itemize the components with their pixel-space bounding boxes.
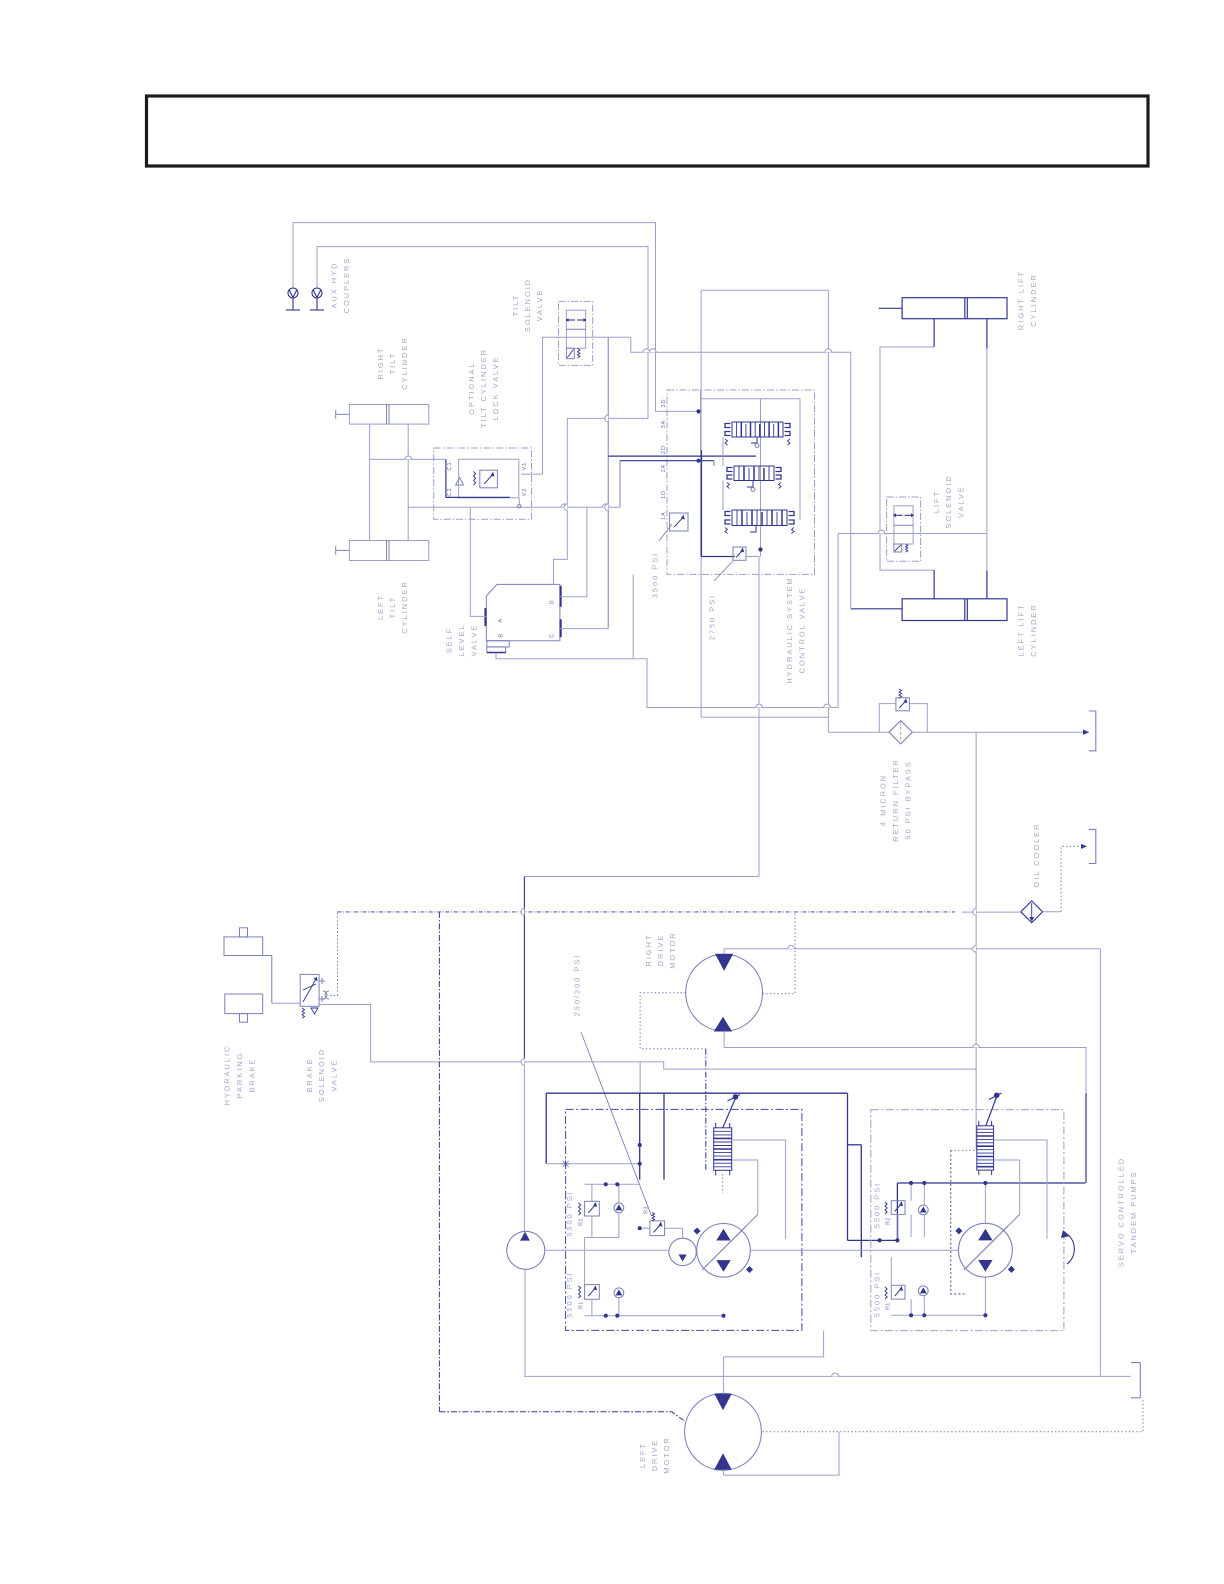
wire lift rod feed bbox=[850, 352, 852, 609]
left check upper bbox=[614, 1203, 624, 1213]
port relief 2750 psi bbox=[733, 547, 746, 560]
svg-text:TILT: TILT bbox=[388, 596, 397, 619]
wire control valve tank drop bbox=[632, 574, 634, 658]
wire self level to case line bbox=[647, 707, 838, 709]
wire tilt line to lock valve C2 bbox=[408, 506, 620, 508]
svg-text:CYLINDER: CYLINDER bbox=[400, 336, 409, 389]
lift solenoid bbox=[894, 544, 902, 552]
main relief 3500 psi bbox=[670, 513, 688, 531]
wire case drain to oil cooler bbox=[962, 911, 1021, 913]
wire 3A branch bbox=[567, 417, 648, 419]
brake release line to left motor bbox=[438, 912, 440, 1412]
svg-text:R3: R3 bbox=[643, 1206, 649, 1213]
lift solenoid valve arrows bbox=[896, 514, 903, 516]
svg-text:VALVE: VALVE bbox=[956, 485, 965, 518]
dark drop right pump bbox=[847, 1093, 849, 1240]
lift solenoid valve body bbox=[894, 506, 913, 544]
aux hyd coupler A bbox=[286, 288, 300, 310]
svg-text:SELF: SELF bbox=[444, 627, 453, 653]
return filter bbox=[889, 721, 912, 744]
svg-text:SOLENOID: SOLENOID bbox=[317, 1048, 326, 1102]
svg-text:5500 PSI: 5500 PSI bbox=[565, 1190, 574, 1236]
svg-text:C2: C2 bbox=[447, 487, 453, 496]
left relief R1 bbox=[585, 1285, 600, 1300]
svg-text:DRIVE: DRIVE bbox=[656, 934, 665, 967]
svg-text:4 MICRON: 4 MICRON bbox=[879, 774, 888, 826]
left pump junction dots bbox=[604, 1182, 608, 1186]
svg-text:CONTROL VALVE: CONTROL VALVE bbox=[797, 587, 806, 674]
svg-text:3500 PSI: 3500 PSI bbox=[650, 552, 659, 598]
left lift cylinder bbox=[902, 599, 1007, 621]
return manifold column bbox=[1099, 949, 1101, 1377]
lock valve C1 passage bbox=[446, 459, 510, 497]
svg-text:OIL COOLER: OIL COOLER bbox=[1032, 823, 1041, 888]
left relief R2 bbox=[585, 1201, 600, 1216]
wire lift valve line bbox=[838, 533, 987, 535]
svg-text:C: C bbox=[550, 634, 556, 638]
wire right lift rod drop bbox=[986, 319, 988, 349]
tilt spool bbox=[727, 466, 781, 489]
right drive motor case drain node bbox=[1085, 1047, 1087, 1093]
frame corner marker bbox=[561, 1159, 570, 1168]
leader 3500 psi bbox=[659, 524, 672, 541]
case drain drop to pump bbox=[705, 1049, 707, 1171]
lift spool bbox=[725, 422, 790, 445]
svg-text:3A: 3A bbox=[661, 420, 667, 429]
right check lower bbox=[918, 1286, 928, 1296]
left pump internal rails bbox=[585, 1183, 640, 1185]
svg-text:MOTOR: MOTOR bbox=[668, 931, 677, 968]
left relief R3 bbox=[650, 1221, 665, 1236]
svg-text:SERVO CONTROLLED: SERVO CONTROLLED bbox=[1117, 1157, 1126, 1267]
brake solenoid valve bbox=[300, 974, 319, 1006]
filter bypass loop bbox=[879, 704, 896, 733]
pump pressure loop (dark) bbox=[546, 1092, 847, 1094]
wire aux coupler A to control valve port 3D bbox=[293, 223, 701, 412]
wire right tilt head-side down bbox=[407, 424, 409, 540]
wire charge suction bbox=[523, 1058, 525, 1231]
svg-text:DRIVE: DRIVE bbox=[650, 1439, 659, 1472]
left servo lever bbox=[723, 1098, 736, 1128]
left servo links bbox=[732, 1140, 786, 1239]
right servo spool bbox=[977, 1121, 994, 1175]
wire tank gallery return to pumps bbox=[524, 876, 759, 878]
svg-text:LIFT: LIFT bbox=[932, 490, 941, 513]
right relief R2 bbox=[891, 1201, 905, 1215]
tilt solenoid bbox=[566, 348, 574, 359]
svg-text:VALVE: VALVE bbox=[329, 1059, 338, 1092]
wire right tilt rod-side down bbox=[369, 424, 371, 540]
spool2 drain hook bbox=[747, 481, 753, 488]
right servo lever bbox=[986, 1097, 997, 1126]
wire self level D port bbox=[560, 507, 587, 596]
left main pump bbox=[697, 1224, 751, 1278]
svg-text:2750 PSI: 2750 PSI bbox=[707, 594, 716, 640]
svg-text:250/300 PSI: 250/300 PSI bbox=[573, 954, 582, 1017]
svg-text:R1: R1 bbox=[578, 1301, 584, 1308]
left check lower bbox=[614, 1288, 624, 1298]
self level valve port marks bbox=[559, 586, 561, 607]
lift loop left bbox=[880, 347, 934, 570]
oil cooler bbox=[1021, 901, 1043, 923]
wire 2A feed (light) bbox=[619, 461, 621, 508]
left charge pump bbox=[507, 1231, 545, 1269]
lock valve V2 port bbox=[518, 505, 521, 508]
wire aux coupler B to control valve port 2D bbox=[317, 247, 648, 419]
svg-text:BRAKE: BRAKE bbox=[305, 1057, 314, 1092]
right servo pilot bbox=[951, 1150, 967, 1294]
left pump enclosure bbox=[566, 1109, 802, 1330]
wire brake return bbox=[319, 1005, 640, 1094]
svg-text:COUPLERS: COUPLERS bbox=[342, 257, 351, 314]
control valve enclosure bbox=[667, 390, 815, 574]
aux hyd coupler B bbox=[310, 288, 324, 310]
self level valve tabs bbox=[487, 641, 509, 647]
spool1 drain hook bbox=[751, 437, 757, 443]
right check upper bbox=[918, 1205, 928, 1215]
right motor pilot stub bbox=[763, 912, 796, 994]
wire tilt valve to lock valve V1 bbox=[542, 337, 544, 474]
brake valve pilot bbox=[323, 991, 329, 999]
tilt solenoid valve body bbox=[566, 310, 585, 348]
lift valve spring bbox=[906, 544, 908, 552]
svg-text:5500 PSI: 5500 PSI bbox=[565, 1271, 574, 1317]
svg-text:B: B bbox=[498, 634, 504, 638]
lift solenoid valve enclosure bbox=[887, 497, 921, 561]
wire left lift head bbox=[933, 570, 935, 599]
wire case manifold bbox=[640, 1062, 976, 1069]
left drive motor bbox=[685, 1393, 762, 1470]
svg-text:RIGHT: RIGHT bbox=[376, 347, 385, 380]
tank port cooler bbox=[1089, 829, 1096, 863]
wire brake to valve bbox=[272, 1002, 300, 1004]
svg-text:R2: R2 bbox=[885, 1217, 891, 1224]
wire control valve to filter bbox=[828, 731, 889, 733]
right pump junction dots bbox=[909, 1181, 913, 1185]
wire left lift rod bbox=[986, 571, 988, 599]
right relief R1 bbox=[891, 1285, 905, 1299]
svg-text:MOTOR: MOTOR bbox=[662, 1436, 671, 1473]
svg-text:2A: 2A bbox=[661, 464, 667, 473]
svg-text:OPTIONAL: OPTIONAL bbox=[467, 361, 476, 414]
lock valve check valve bbox=[456, 478, 464, 486]
wire left lift rod line bbox=[851, 608, 902, 610]
left gerotor bbox=[669, 1238, 696, 1265]
svg-text:TILT CYLINDER: TILT CYLINDER bbox=[479, 348, 488, 428]
control valve gallery bbox=[700, 390, 702, 557]
svg-text:5500 PSI: 5500 PSI bbox=[872, 1182, 881, 1228]
brake valve T ports bbox=[319, 980, 325, 982]
svg-text:LEFT LIFT: LEFT LIFT bbox=[1017, 603, 1026, 656]
svg-text:1A: 1A bbox=[661, 511, 667, 520]
right pump port rail (dark) bbox=[897, 1182, 1085, 1184]
svg-text:R2: R2 bbox=[578, 1218, 584, 1225]
right motor case drain bbox=[640, 993, 706, 1049]
lift loop right bbox=[986, 349, 988, 571]
wire right motor A bbox=[723, 949, 725, 955]
control valve inner frame bbox=[701, 399, 801, 520]
svg-text:D: D bbox=[550, 600, 556, 604]
hydraulic parking brake bbox=[224, 937, 263, 956]
svg-text:LEFT: LEFT bbox=[638, 1442, 647, 1468]
svg-text:LOCK VALVE: LOCK VALVE bbox=[491, 356, 500, 421]
title box bbox=[147, 96, 1149, 166]
svg-text:RIGHT: RIGHT bbox=[644, 934, 653, 967]
svg-text:RIGHT LIFT: RIGHT LIFT bbox=[1017, 270, 1026, 330]
suction line to tank bbox=[524, 1375, 1131, 1377]
right pump enclosure bbox=[871, 1110, 1064, 1331]
svg-text:1D: 1D bbox=[661, 490, 667, 499]
spool interconnects bbox=[722, 437, 724, 466]
left R3 connections bbox=[640, 1227, 650, 1229]
leader 250/300 psi bbox=[581, 1032, 652, 1216]
lock valve enclosure bbox=[434, 448, 532, 519]
wire filter to tank bbox=[912, 731, 1089, 733]
svg-text:LEVEL: LEVEL bbox=[457, 623, 466, 656]
svg-text:3D: 3D bbox=[661, 398, 667, 407]
charge suction drop bbox=[524, 1269, 526, 1376]
left pump main line bbox=[545, 1249, 669, 1251]
control valve pressure gallery (dark) bbox=[701, 450, 703, 556]
brake valve spring bbox=[302, 1008, 305, 1018]
svg-text:50 PSI BYPASS: 50 PSI BYPASS bbox=[903, 760, 912, 839]
svg-text:V1: V1 bbox=[522, 462, 528, 471]
wire self level C port bbox=[560, 628, 608, 630]
svg-text:TILT: TILT bbox=[388, 352, 397, 375]
wire 2A feed (dark) bbox=[608, 455, 756, 457]
left pump port columns (dark) bbox=[639, 1093, 641, 1179]
right lift cylinder bbox=[902, 298, 1007, 319]
wire right lift head drop bbox=[933, 319, 935, 347]
wire tilt pilot to 3A bbox=[631, 337, 851, 352]
svg-text:SOLENOID: SOLENOID bbox=[523, 278, 532, 332]
svg-text:2D: 2D bbox=[661, 445, 667, 454]
svg-text:BRAKE: BRAKE bbox=[247, 1057, 256, 1092]
brake pilot line (dash) bbox=[338, 911, 956, 913]
svg-text:AUX HYD: AUX HYD bbox=[329, 262, 338, 309]
filter bypass relief 50 psi bbox=[896, 698, 910, 711]
wire self level A port bbox=[470, 507, 486, 616]
rotation arrow bbox=[1067, 1234, 1074, 1264]
wire 2750 relief to tank gallery bbox=[746, 557, 759, 877]
crossing bumps bbox=[643, 349, 650, 352]
svg-text:R1: R1 bbox=[885, 1302, 891, 1309]
svg-text:C1: C1 bbox=[447, 461, 453, 470]
right servo links bbox=[994, 1140, 1047, 1239]
left motor case line bbox=[763, 1398, 1144, 1432]
svg-text:VALVE: VALVE bbox=[469, 624, 478, 657]
svg-text:RETURN FILTER: RETURN FILTER bbox=[891, 758, 900, 842]
right main pump bbox=[959, 1223, 1013, 1277]
svg-text:A: A bbox=[498, 618, 504, 622]
svg-text:LEFT: LEFT bbox=[376, 594, 385, 620]
right drive motor bbox=[686, 954, 763, 1031]
right tilt cylinder bbox=[349, 405, 428, 425]
tilt valve port line bbox=[543, 336, 631, 338]
svg-text:TANDEM PUMPS: TANDEM PUMPS bbox=[1129, 1171, 1138, 1254]
wire self level tank return bbox=[496, 653, 647, 708]
svg-text:CYLINDER: CYLINDER bbox=[1029, 273, 1038, 326]
wire oil cooler to tank bbox=[1043, 911, 1062, 913]
svg-text:HYDRAULIC: HYDRAULIC bbox=[223, 1045, 232, 1106]
lock valve pilot relief bbox=[480, 470, 498, 488]
wire tilt valve to control valve 2A (dark) bbox=[607, 337, 609, 628]
wire left motor B bbox=[722, 1470, 724, 1475]
tank return port bbox=[1089, 711, 1096, 751]
right pump internal rails bbox=[910, 1183, 912, 1201]
svg-text:SOLENOID: SOLENOID bbox=[944, 474, 953, 528]
svg-text:HYDRAULIC SYSTEM: HYDRAULIC SYSTEM bbox=[785, 576, 794, 683]
tank port bottom bbox=[1131, 1363, 1140, 1398]
svg-text:TILT: TILT bbox=[511, 294, 520, 317]
self level valve body bbox=[486, 584, 560, 640]
wire left motor A bbox=[722, 1357, 724, 1394]
svg-text:PARKING: PARKING bbox=[235, 1052, 244, 1099]
wire lift valve to case return bbox=[837, 534, 839, 708]
left servo spool bbox=[714, 1123, 732, 1176]
leader 2750 psi bbox=[714, 561, 733, 581]
aux spool bbox=[725, 510, 794, 534]
svg-text:V2: V2 bbox=[522, 488, 528, 497]
svg-text:VALVE: VALVE bbox=[535, 289, 544, 322]
filter drain column bbox=[975, 732, 977, 1150]
svg-text:CYLINDER: CYLINDER bbox=[400, 580, 409, 633]
svg-text:CYLINDER: CYLINDER bbox=[1029, 603, 1038, 656]
lock valve body bbox=[459, 459, 519, 498]
tilt valve spring bbox=[578, 349, 580, 359]
left tilt cylinder bbox=[349, 541, 428, 561]
control valve outer body bbox=[700, 290, 702, 717]
wire right motor B bbox=[723, 1031, 725, 1048]
svg-text:5500 PSI: 5500 PSI bbox=[872, 1271, 881, 1317]
lock valve V1 wire bbox=[521, 473, 543, 475]
tilt solenoid valve enclosure bbox=[559, 301, 593, 365]
spool3 drain hook bbox=[750, 526, 756, 533]
tilt solenoid valve arrows bbox=[569, 319, 576, 321]
left servo pilot bbox=[722, 1174, 724, 1193]
wire tilt line to lock valve C1 bbox=[370, 458, 446, 460]
